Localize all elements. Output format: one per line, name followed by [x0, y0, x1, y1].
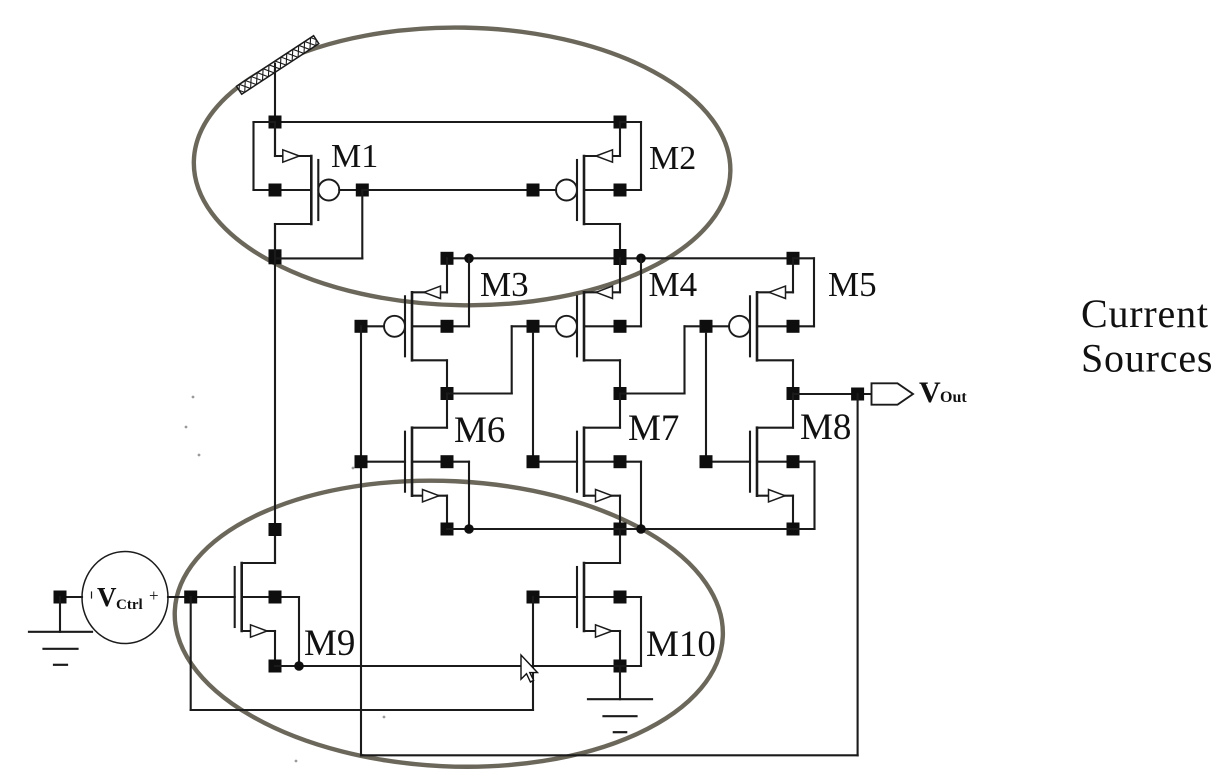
node	[184, 591, 197, 604]
wire	[620, 392, 685, 394]
node	[441, 387, 454, 400]
junction	[636, 253, 646, 263]
label M1	[331, 138, 378, 175]
wire	[619, 666, 621, 699]
node	[441, 252, 454, 265]
svg-text:M5: M5	[828, 265, 877, 304]
svg-text:M4: M4	[649, 265, 698, 304]
node	[787, 387, 800, 400]
wire	[512, 325, 527, 327]
svg-text:M7: M7	[628, 408, 679, 449]
wire	[275, 257, 362, 259]
junction	[636, 524, 646, 534]
svg-text:M8: M8	[800, 407, 851, 448]
node	[614, 184, 627, 197]
node	[269, 591, 282, 604]
transistor M6 (NMOS cascode)	[366, 394, 469, 530]
power rail VDD (hatched slanted bar)	[234, 30, 328, 96]
wire	[361, 754, 858, 756]
node	[614, 387, 627, 400]
wire	[275, 665, 641, 667]
svg-text:Current: Current	[1081, 291, 1209, 336]
transistor M2 (PMOS)	[538, 122, 641, 257]
wire	[168, 596, 191, 598]
node	[527, 184, 540, 197]
transistor M1 (PMOS, diode-connected)	[254, 122, 358, 257]
label M5	[828, 265, 877, 304]
node	[614, 116, 627, 129]
wire	[274, 224, 276, 563]
wire	[447, 528, 815, 530]
node	[441, 455, 454, 468]
label M8	[800, 407, 851, 448]
node	[527, 455, 540, 468]
svg-text:M3: M3	[480, 265, 529, 304]
wire	[447, 392, 512, 394]
annotation ellipse (top current-source pair M1/M2)	[191, 23, 732, 310]
wire	[60, 596, 82, 598]
ground (VCtrl)	[29, 632, 92, 665]
wire	[857, 394, 859, 755]
node	[614, 252, 627, 265]
node	[269, 184, 282, 197]
wire	[683, 326, 685, 393]
voltage source VCtrl	[82, 552, 168, 644]
node	[614, 660, 627, 673]
svg-text:M2: M2	[649, 140, 696, 177]
node VOut	[851, 388, 864, 401]
svg-text:M9: M9	[304, 623, 355, 664]
node	[614, 591, 627, 604]
svg-text:M6: M6	[454, 410, 505, 451]
node	[787, 252, 800, 265]
svg-text:M10: M10	[646, 624, 716, 665]
node	[269, 523, 282, 536]
wire	[361, 190, 363, 258]
svg-text:V: V	[97, 582, 117, 612]
wire	[362, 189, 533, 191]
node	[700, 455, 713, 468]
wire	[705, 333, 707, 462]
label M3	[480, 265, 529, 304]
node	[355, 320, 368, 333]
wire	[532, 333, 534, 462]
transistor M8 (NMOS cascode)	[711, 394, 815, 530]
wire	[191, 709, 533, 711]
label M4	[649, 265, 698, 304]
annotation ellipse (bottom current-source pair M9/M10)	[168, 468, 729, 779]
svg-text:M1: M1	[331, 138, 378, 175]
transistor M5 (PMOS cascode)	[711, 258, 814, 393]
label M9	[304, 623, 355, 664]
node	[54, 591, 67, 604]
node	[269, 660, 282, 673]
noise specks	[185, 396, 386, 763]
svg-text:Out: Out	[940, 389, 967, 406]
junction	[464, 524, 474, 534]
node	[787, 320, 800, 333]
node	[614, 523, 627, 536]
node	[700, 320, 713, 333]
svg-text:Ctrl: Ctrl	[116, 597, 143, 613]
wire	[793, 393, 872, 395]
wire	[532, 597, 534, 710]
ground (M10)	[588, 699, 652, 732]
transistor M9 (NMOS mirror, diode side)	[196, 530, 299, 667]
wire	[685, 325, 700, 327]
node	[441, 523, 454, 536]
label M7	[628, 408, 679, 449]
annotation text Current Sources	[1081, 291, 1213, 381]
transistor M7 (NMOS cascode)	[538, 394, 641, 530]
junction	[294, 661, 304, 671]
junction	[464, 253, 474, 263]
node	[527, 320, 540, 333]
node	[356, 184, 369, 197]
label VOut	[919, 376, 967, 409]
node	[355, 455, 368, 468]
svg-text:V: V	[919, 376, 941, 409]
label M6	[454, 410, 505, 451]
transistor M4 (PMOS cascode)	[538, 258, 641, 393]
wire	[274, 64, 276, 156]
node	[614, 320, 627, 333]
node	[787, 455, 800, 468]
wire	[447, 257, 793, 259]
wire	[59, 597, 61, 632]
node	[269, 116, 282, 129]
node	[614, 249, 627, 265]
node	[614, 455, 627, 468]
svg-text:+: +	[149, 586, 159, 605]
transistor M3 (PMOS cascode)	[366, 258, 469, 393]
wire	[360, 326, 362, 755]
node	[441, 320, 454, 333]
transistor M10 (NMOS mirror)	[538, 530, 641, 667]
mouse cursor	[521, 655, 538, 682]
label M10	[646, 624, 716, 665]
node	[527, 591, 540, 604]
wire	[275, 121, 620, 123]
port VOut symbol	[872, 383, 914, 404]
wire	[511, 326, 513, 393]
svg-text:Sources: Sources	[1081, 336, 1213, 381]
label M2	[649, 140, 696, 177]
node	[269, 249, 282, 264]
node	[787, 523, 800, 536]
wire	[190, 597, 192, 710]
